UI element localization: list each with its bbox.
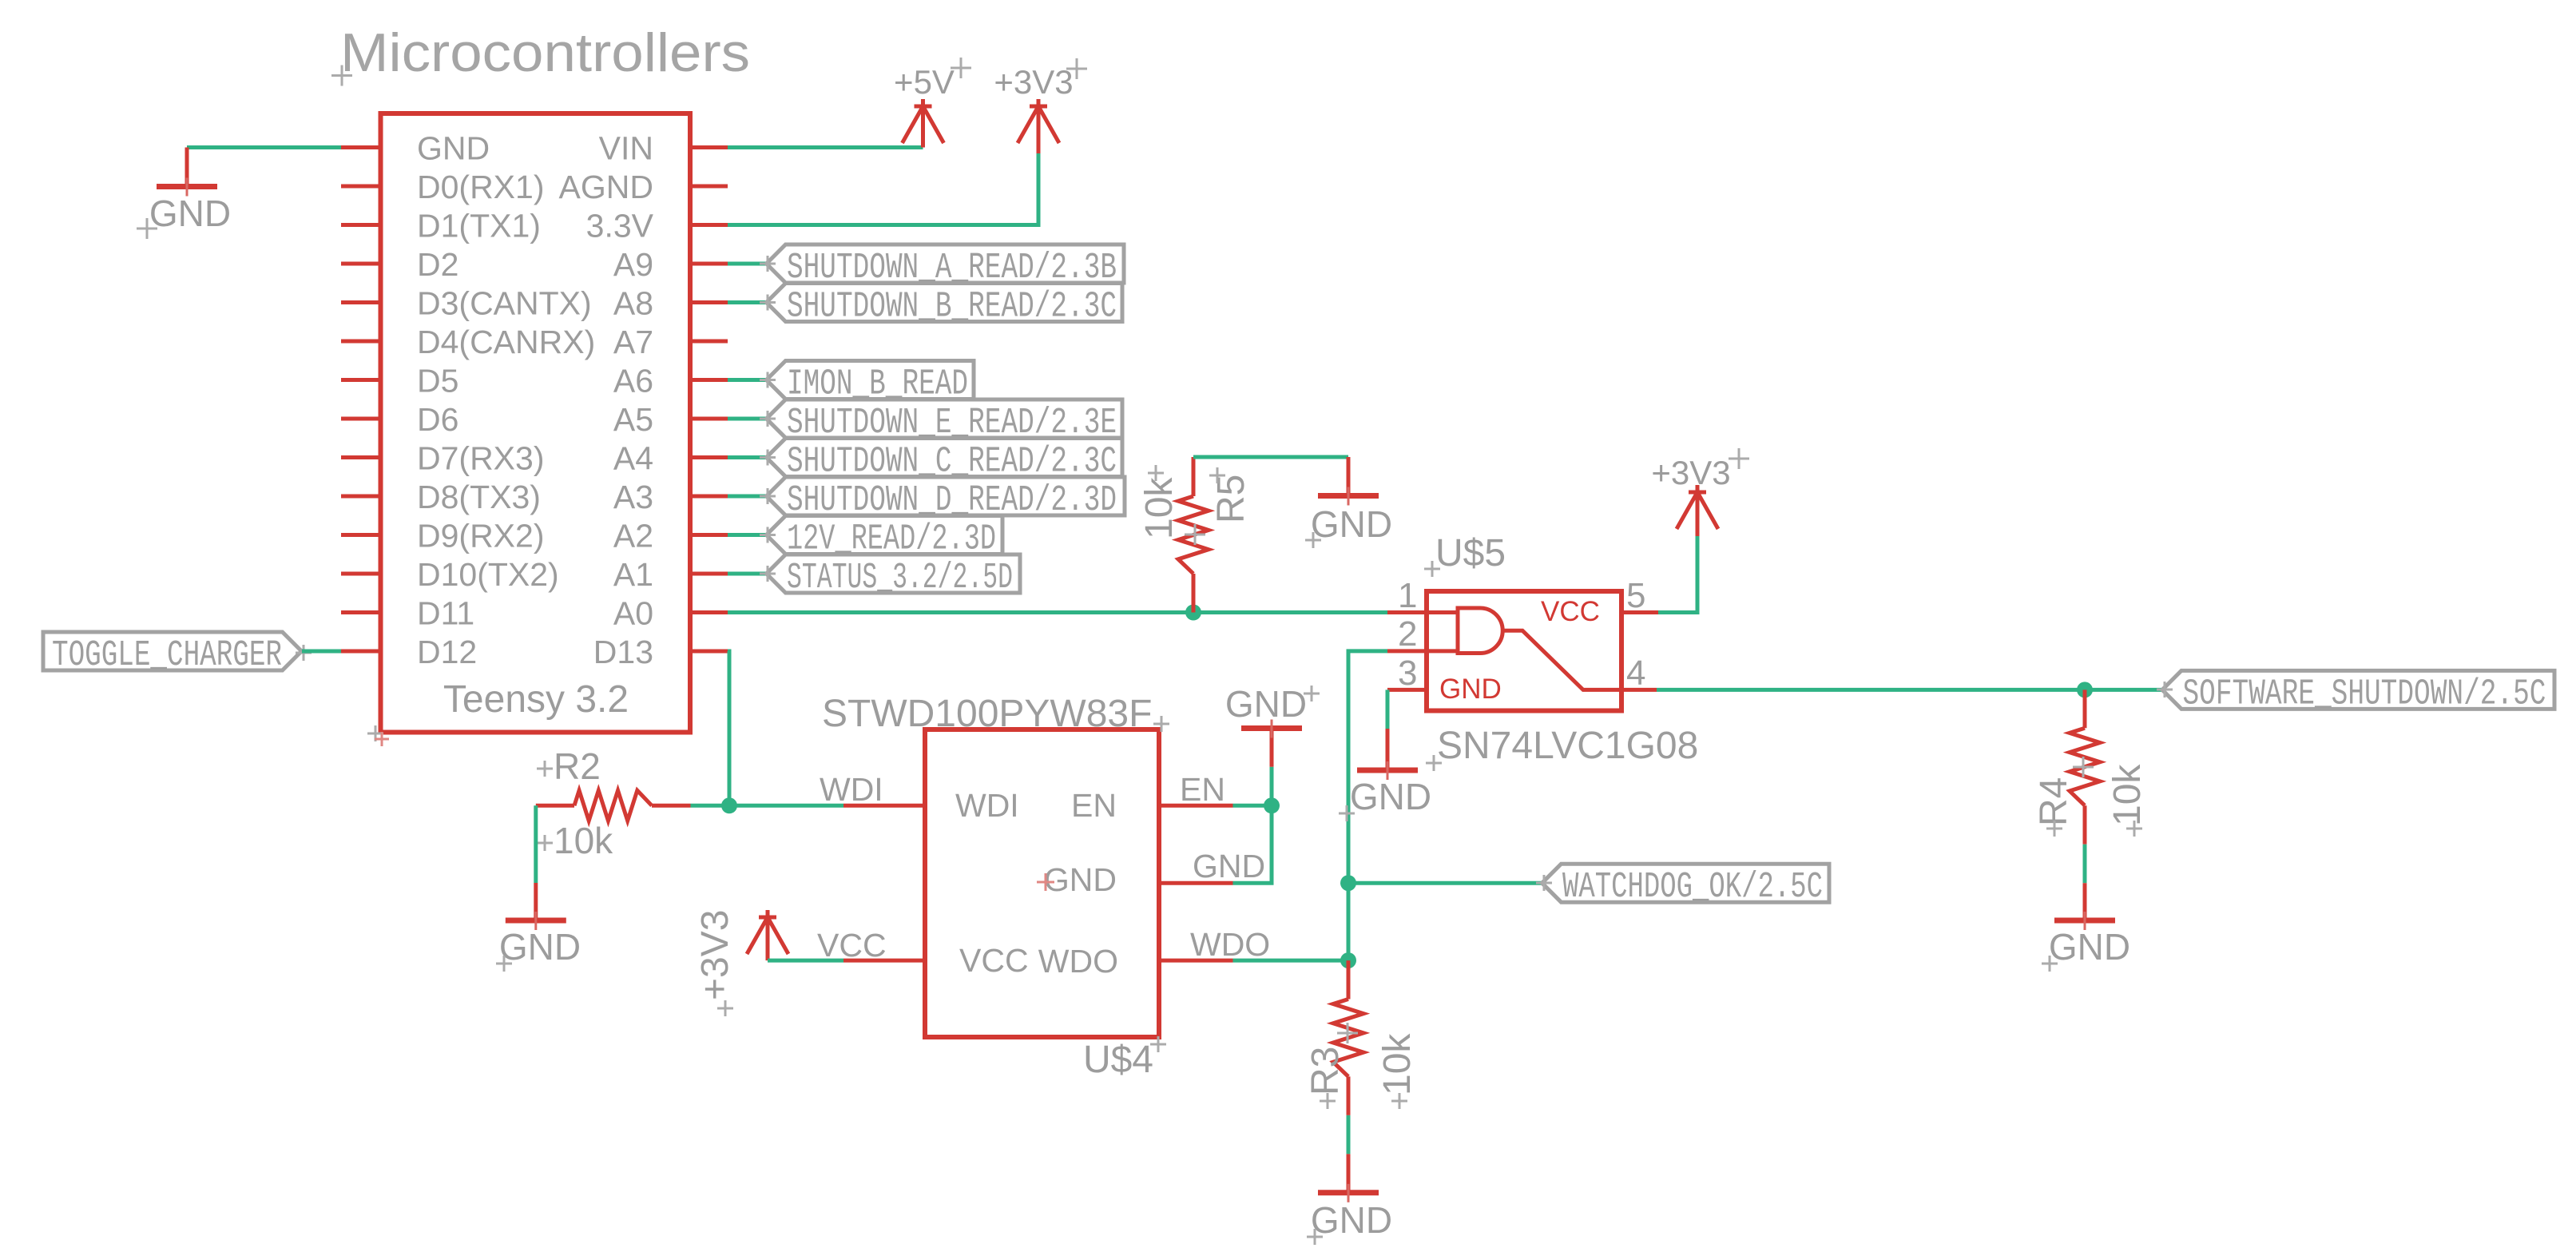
pin D9(RX2) (left stub) — [341, 533, 381, 537]
svg-text:TOGGLE_CHARGER: TOGGLE_CHARGER — [52, 635, 282, 676]
wire SHUTDOWN_C_READ/2.3C — [728, 455, 767, 459]
net label STATUS_3.2/2.5D — [767, 554, 1021, 593]
pin D10(TX2) (left stub) — [341, 572, 381, 576]
net label SOFTWARE_SHUTDOWN/2.5C — [2162, 670, 2554, 709]
pin AGND (right stub) — [690, 185, 728, 189]
svg-text:A8: A8 — [613, 285, 653, 322]
wire R4 to ground — [2083, 845, 2087, 884]
wire 3.3V to +3V3 — [728, 152, 1038, 225]
wire R2 to ground — [534, 805, 538, 883]
ground symbol GND (R2) — [534, 883, 538, 920]
svg-text:U$4: U$4 — [1083, 1039, 1153, 1081]
microcontroller U1 Teensy 3.2 box — [381, 113, 691, 733]
net label 12V_READ/2.3D — [767, 516, 1003, 554]
wire SHUTDOWN_B_READ/2.3C — [728, 300, 767, 304]
pin A6 (right stub) — [690, 378, 728, 382]
svg-text:VCC: VCC — [959, 942, 1029, 979]
svg-text:10k: 10k — [1138, 477, 1181, 539]
svg-text:D2: D2 — [417, 246, 458, 283]
svg-text:VCC: VCC — [1541, 596, 1600, 627]
svg-text:U$5: U$5 — [1435, 532, 1506, 574]
wire junction up to ground — [1270, 767, 1274, 806]
svg-text:D5: D5 — [417, 363, 458, 399]
svg-text:D9(RX2): D9(RX2) — [417, 518, 544, 554]
svg-text:D11: D11 — [417, 595, 474, 632]
svg-text:A5: A5 — [613, 401, 653, 438]
svg-text:GND: GND — [1439, 674, 1502, 705]
svg-text:+5V: +5V — [894, 63, 955, 101]
wire EN to junction — [1233, 804, 1272, 808]
pin A8 (right stub) — [690, 300, 728, 304]
junction WDO/R3 — [1340, 952, 1356, 968]
pin D13 (right stub) — [690, 650, 728, 654]
pin EN — [1159, 804, 1233, 808]
svg-text:WDI: WDI — [955, 787, 1019, 824]
svg-text:WDI: WDI — [820, 771, 883, 808]
svg-text:D4(CANRX): D4(CANRX) — [417, 324, 595, 360]
pin 5 VCC — [1621, 610, 1658, 614]
pin GND (watchdog) — [1159, 881, 1233, 885]
ground symbol GND (EN, flipped) — [1270, 729, 1274, 767]
net label WATCHDOG_OK/2.5C — [1542, 864, 1830, 902]
supply +5V — [903, 106, 944, 143]
wire junction to WDI — [729, 804, 843, 808]
svg-text:A7: A7 — [613, 324, 653, 360]
svg-text:D3(CANTX): D3(CANTX) — [417, 285, 592, 322]
pin D2 (left stub) — [341, 262, 381, 266]
ground symbol GND (U$5 pin3) — [1386, 729, 1390, 770]
svg-text:STWD100PYW83F: STWD100PYW83F — [822, 693, 1152, 735]
svg-text:GND: GND — [1311, 503, 1392, 545]
wire +3V3 to VCC — [768, 959, 843, 963]
resistor R4 — [2083, 690, 2087, 728]
svg-text:GND: GND — [1193, 848, 1265, 884]
svg-text:SN74LVC1G08: SN74LVC1G08 — [1437, 725, 1698, 767]
watchdog U$4 STWD100PYW83F box — [925, 729, 1159, 1037]
pin A5 (right stub) — [690, 417, 728, 421]
pin A0 (right stub) — [690, 610, 728, 614]
svg-text:5: 5 — [1626, 576, 1645, 615]
svg-text:GND: GND — [1311, 1199, 1392, 1241]
svg-text:EN: EN — [1071, 787, 1117, 824]
net label IMON_B_READ — [767, 361, 974, 399]
svg-text:SHUTDOWN_B_READ/2.3C: SHUTDOWN_B_READ/2.3C — [787, 287, 1117, 328]
svg-text:GND: GND — [417, 130, 490, 167]
svg-text:3.3V: 3.3V — [586, 208, 654, 244]
pin A3 (right stub) — [690, 495, 728, 499]
pin D1(TX1) (left stub) — [341, 223, 381, 227]
resistor R3 — [1347, 960, 1351, 999]
pin VCC (watchdog) — [843, 959, 925, 963]
svg-text:R3: R3 — [1304, 1047, 1347, 1095]
wire net A0 (Teensy A0 to AND pin 1) — [728, 610, 1387, 614]
pin A9 (right stub) — [690, 262, 728, 266]
pin 3 — [1387, 688, 1427, 692]
net label SHUTDOWN_B_READ/2.3C — [767, 284, 1123, 322]
svg-text:D13: D13 — [593, 634, 653, 670]
wire watchdog GND pin up to junction — [1233, 805, 1272, 883]
junction node A0/R5 — [1185, 605, 1201, 621]
wire pin5 to +3V3 — [1658, 535, 1697, 613]
pin D7(RX3) (left stub) — [341, 455, 381, 459]
net label SHUTDOWN_C_READ/2.3C — [767, 439, 1123, 477]
pin VIN (right stub) — [690, 145, 728, 149]
junction WATCHDOG_OK — [1340, 875, 1356, 891]
svg-text:R4: R4 — [2033, 777, 2075, 826]
pin A2 (right stub) — [690, 533, 728, 537]
supply +3V3 (top) — [1018, 106, 1059, 143]
svg-text:WDO: WDO — [1190, 926, 1270, 963]
svg-text:Microcontrollers: Microcontrollers — [340, 22, 750, 83]
svg-text:GND: GND — [499, 926, 581, 968]
svg-text:VCC: VCC — [817, 927, 887, 964]
svg-text:4: 4 — [1626, 654, 1645, 693]
origin cross (Teensy) — [367, 725, 383, 741]
svg-text:A6: A6 — [613, 363, 653, 399]
svg-text:D7(RX3): D7(RX3) — [417, 440, 544, 477]
svg-text:STATUS_3.2/2.5D: STATUS_3.2/2.5D — [787, 558, 1013, 598]
supply +3V3 (watchdog VCC) — [747, 917, 788, 954]
svg-text:1: 1 — [1398, 576, 1417, 615]
wire SHUTDOWN_A_READ/2.3B — [728, 262, 767, 266]
ground symbol GND (R4) — [2083, 883, 2087, 920]
svg-text:GND: GND — [2049, 926, 2130, 968]
resistor R5 — [1192, 574, 1196, 613]
pin 4 output — [1621, 688, 1657, 692]
svg-text:WDO: WDO — [1038, 943, 1118, 980]
svg-text:3: 3 — [1398, 654, 1417, 693]
svg-text:GND: GND — [1350, 776, 1431, 817]
wire net WATCHDOG_OK to label — [1348, 881, 1542, 885]
wire pin2 net WATCHDOG_OK — [1348, 651, 1387, 960]
svg-text:D6: D6 — [417, 401, 458, 438]
svg-text:A9: A9 — [613, 246, 653, 283]
svg-text:A0: A0 — [613, 595, 653, 632]
pin D0(RX1) (left stub) — [341, 185, 381, 189]
svg-text:D12: D12 — [417, 634, 477, 670]
svg-text:+3V3: +3V3 — [694, 910, 736, 1000]
wire IMON_B_READ — [728, 378, 767, 382]
wire SHUTDOWN_D_READ/2.3D — [728, 495, 767, 499]
svg-text:R2: R2 — [554, 745, 601, 787]
net label TOGGLE_CHARGER — [43, 632, 302, 670]
pin WDI — [843, 804, 925, 808]
wire VIN to +5V — [728, 145, 923, 149]
svg-text:A4: A4 — [613, 440, 653, 477]
wire WDO to R3 junction — [1233, 959, 1349, 963]
pin A4 (right stub) — [690, 455, 728, 459]
svg-text:10k: 10k — [1376, 1033, 1419, 1095]
wire STATUS_3.2/2.5D — [728, 572, 767, 576]
supply +3V3 (U$5) — [1677, 492, 1718, 529]
svg-text:D0(RX1): D0(RX1) — [417, 169, 544, 205]
svg-text:2: 2 — [1398, 614, 1417, 654]
wire R5 to ground — [1193, 455, 1348, 459]
svg-text:AGND: AGND — [559, 169, 653, 205]
pin GND (left stub) — [341, 145, 381, 149]
pin WDO — [1159, 959, 1233, 963]
svg-text:+3V3: +3V3 — [1651, 454, 1730, 491]
pin D6 (left stub) — [341, 417, 381, 421]
svg-text:D8(TX3): D8(TX3) — [417, 479, 541, 515]
wire GND pin to ground — [187, 145, 341, 149]
pin 2 — [1387, 649, 1427, 653]
wire pin4 net SOFTWARE_SHUTDOWN — [1657, 688, 2162, 692]
svg-text:A1: A1 — [613, 556, 653, 593]
net label SHUTDOWN_E_READ/2.3E — [767, 399, 1123, 438]
svg-text:D1(TX1): D1(TX1) — [417, 208, 541, 244]
net label SHUTDOWN_A_READ/2.3B — [767, 244, 1125, 283]
ground symbol GND (R5) — [1347, 457, 1351, 496]
junction SOFTWARE_SHUTDOWN/R4 — [2077, 682, 2093, 698]
svg-text:+3V3: +3V3 — [994, 63, 1073, 101]
junction EN/GND — [1264, 797, 1280, 813]
gate U$5 SN74LVC1G08 box — [1427, 591, 1621, 711]
svg-text:SOFTWARE_SHUTDOWN/2.5C: SOFTWARE_SHUTDOWN/2.5C — [2183, 674, 2546, 714]
svg-text:EN: EN — [1180, 771, 1225, 808]
svg-text:D10(TX2): D10(TX2) — [417, 556, 559, 593]
wire 12V_READ/2.3D — [728, 533, 767, 537]
svg-text:A3: A3 — [613, 479, 653, 515]
ground symbol GND (R3) — [1347, 1154, 1351, 1192]
wire pin3 to ground — [1386, 690, 1390, 729]
wire D13 to WDI junction — [728, 651, 729, 805]
wire TOGGLE_CHARGER to D12 — [302, 650, 341, 654]
svg-text:10k: 10k — [2106, 764, 2149, 826]
pin A7 (right stub) — [690, 340, 728, 344]
junction WDI node — [721, 797, 737, 813]
AND gate symbol — [1427, 608, 1621, 690]
resistor R2 — [536, 804, 574, 808]
svg-text:GND: GND — [1044, 861, 1117, 898]
ground symbol GND (top left) — [185, 148, 189, 187]
wire R3 to ground — [1347, 1115, 1351, 1155]
svg-text:WATCHDOG_OK/2.5C: WATCHDOG_OK/2.5C — [1562, 867, 1823, 908]
pin 1 — [1387, 610, 1427, 614]
net label SHUTDOWN_D_READ/2.3D — [767, 477, 1125, 515]
pin D11 (left stub) — [341, 610, 381, 614]
pin D3(CANTX) (left stub) — [341, 300, 381, 304]
svg-text:GND: GND — [1225, 683, 1307, 725]
pin D12 (left stub) — [341, 650, 381, 654]
wire SHUTDOWN_E_READ/2.3E — [728, 417, 767, 421]
wire R2 to WDI junction — [691, 804, 730, 808]
pin D8(TX3) (left stub) — [341, 495, 381, 499]
pin A1 (right stub) — [690, 572, 728, 576]
svg-text:10k: 10k — [554, 820, 613, 861]
pin D5 (left stub) — [341, 378, 381, 382]
pin 3.3V (right stub) — [690, 223, 728, 227]
pin D4(CANRX) (left stub) — [341, 340, 381, 344]
svg-text:GND: GND — [149, 193, 231, 234]
svg-text:A2: A2 — [613, 518, 653, 554]
svg-text:VIN: VIN — [599, 130, 653, 167]
svg-text:Teensy 3.2: Teensy 3.2 — [443, 678, 629, 721]
